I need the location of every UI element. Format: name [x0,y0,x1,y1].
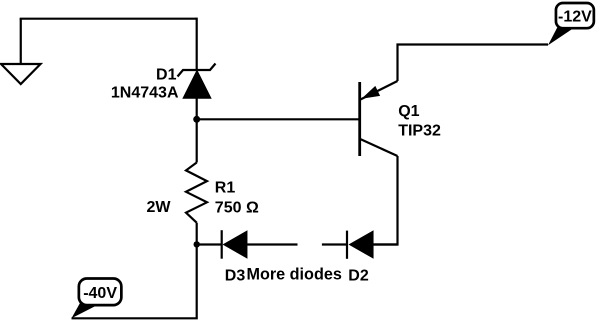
diode D3 [222,230,247,259]
svg-text:D1: D1 [156,67,177,84]
diode D1 zener 1N4743A [178,64,216,99]
svg-text:D2: D2 [348,267,369,284]
wire D2 anode lead [373,243,398,245]
wire dashed segment to D2 [322,243,347,245]
wire node2 to D3 [197,243,222,245]
svg-text:-12V: -12V [558,8,592,25]
wire D3 anode lead [247,243,298,245]
svg-text:2W: 2W [147,199,172,216]
power label -40V [72,279,122,319]
svg-text:-40V: -40V [83,285,117,302]
diode D2 [347,231,373,259]
ground [1,64,41,84]
wire R1 bottom lead [196,223,198,245]
wire top horizontal [20,18,197,20]
svg-text:Q1: Q1 [398,103,419,120]
wire R1 top lead [196,119,198,162]
svg-text:1N4743A: 1N4743A [111,85,179,102]
wire D1 bottom lead [196,98,198,119]
wire collector down to D2 [373,156,398,245]
svg-text:TIP32: TIP32 [398,123,441,140]
svg-text:R1: R1 [215,180,236,197]
node junction 1 [193,116,200,123]
svg-text:D3: D3 [225,268,246,285]
wire ground riser [20,19,22,64]
wire emitter up and right to -12V [398,45,549,82]
transistor Q1 TIP32 [360,81,398,156]
wire D1 top lead [196,18,198,70]
resistor R1 [186,163,207,223]
svg-text:750 Ω: 750 Ω [215,199,259,216]
power label -12V [548,3,594,45]
node junction 2 [194,241,200,247]
wire base [197,118,360,120]
svg-text:More diodes: More diodes [247,265,342,283]
wire down to bottom rail [72,244,197,318]
